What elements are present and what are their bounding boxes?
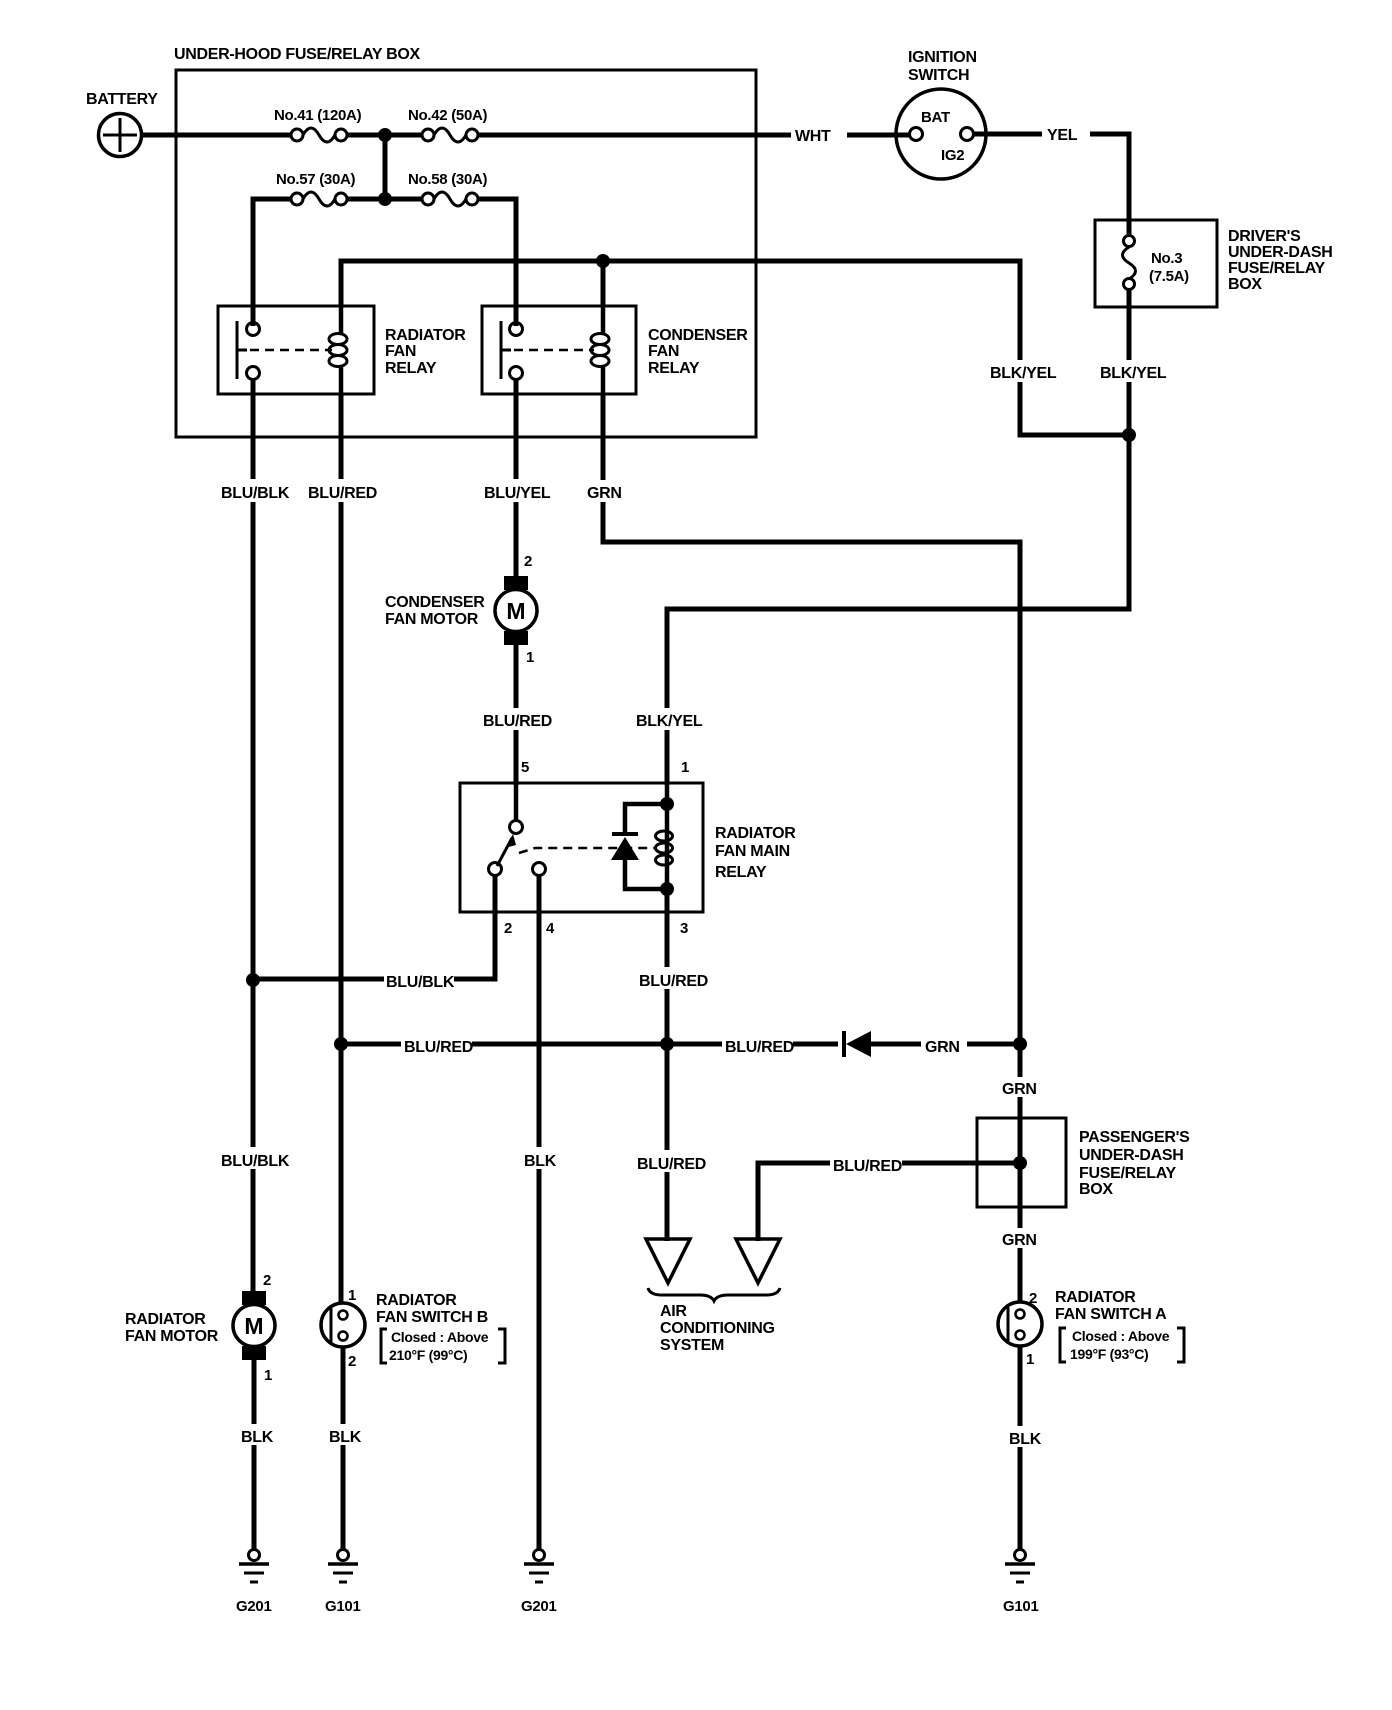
wire switch A BLK to ground	[1018, 1346, 1023, 1550]
svg-text:BAT: BAT	[921, 109, 950, 126]
svg-text:1: 1	[264, 1367, 272, 1384]
svg-text:Closed : Above: Closed : Above	[1072, 1328, 1170, 1344]
label BLU/RED branch	[830, 1152, 902, 1175]
svg-text:BLK: BLK	[1009, 1431, 1042, 1448]
label GRN bus	[921, 1034, 967, 1056]
svg-text:BLU/RED: BLU/RED	[637, 1156, 706, 1173]
wire condenser coil drop	[601, 261, 606, 306]
fuse No.58	[408, 171, 488, 206]
fuse No.41	[274, 107, 362, 142]
wire fuse57 to fuse58	[347, 197, 423, 202]
svg-text:BLK/YEL: BLK/YEL	[990, 365, 1057, 382]
svg-text:FAN SWITCH A: FAN SWITCH A	[1055, 1306, 1167, 1323]
svg-text:BLK/YEL: BLK/YEL	[1100, 365, 1167, 382]
svg-text:BLU/RED: BLU/RED	[483, 713, 552, 730]
svg-text:IG2: IG2	[941, 147, 964, 164]
svg-text:SYSTEM: SYSTEM	[660, 1337, 724, 1354]
svg-text:BLU/RED: BLU/RED	[833, 1158, 902, 1175]
svg-text:BLU/RED: BLU/RED	[308, 485, 377, 502]
fuse No.3	[1123, 236, 1190, 290]
label BLU/BLK lower	[219, 1147, 290, 1170]
label RADIATOR FAN RELAY	[385, 327, 466, 377]
svg-text:No.3: No.3	[1151, 250, 1182, 267]
svg-text:M: M	[244, 1313, 263, 1339]
node BLU/BLK junction	[246, 973, 260, 987]
node A row1 junction	[378, 128, 392, 142]
svg-text:3: 3	[680, 920, 688, 937]
main relay coil	[656, 783, 673, 889]
svg-text:FUSE/RELAY: FUSE/RELAY	[1228, 260, 1326, 277]
svg-text:FAN: FAN	[648, 343, 679, 360]
svg-text:BLU/RED: BLU/RED	[725, 1039, 794, 1056]
wire row2 left segment to fuse57	[253, 199, 292, 326]
svg-text:CONDENSER: CONDENSER	[385, 594, 485, 611]
svg-text:WHT: WHT	[795, 128, 831, 145]
svg-text:DRIVER'S: DRIVER'S	[1228, 228, 1301, 245]
svg-text:BLU/BLK: BLU/BLK	[221, 1153, 290, 1170]
svg-text:BLK: BLK	[241, 1429, 274, 1446]
label BLU/RED bus mid	[722, 1033, 794, 1056]
svg-text:FAN SWITCH B: FAN SWITCH B	[376, 1309, 488, 1326]
radiator fan switch A	[998, 1302, 1042, 1346]
ground G201 motor	[236, 1550, 272, 1616]
wire node A down to node B	[383, 135, 388, 199]
label GRN above passenger box	[999, 1077, 1044, 1098]
wire BLU/RED branch to passenger box	[758, 1163, 1020, 1241]
svg-text:2: 2	[524, 553, 532, 570]
node bus left	[334, 1037, 348, 1051]
label BLK motor	[238, 1424, 274, 1446]
svg-text:No.42 (50A): No.42 (50A)	[408, 107, 488, 124]
wire IG2 YEL to driver box	[974, 134, 1129, 237]
A/C arrow 2	[736, 1239, 780, 1283]
svg-text:CONDENSER: CONDENSER	[648, 327, 748, 344]
pin 5 label	[521, 759, 529, 776]
wire pin2 to BLU/BLK junction	[253, 876, 495, 979]
svg-text:G201: G201	[236, 1598, 272, 1615]
wire coil bus y261	[341, 261, 1129, 435]
battery	[99, 114, 142, 157]
label UNDER-HOOD FUSE/RELAY BOX	[174, 46, 420, 63]
svg-text:4: 4	[546, 920, 555, 937]
svg-text:RADIATOR: RADIATOR	[376, 1292, 457, 1309]
label BLU/RED above arrow1	[634, 1150, 706, 1173]
svg-text:UNDER-HOOD FUSE/RELAY BOX: UNDER-HOOD FUSE/RELAY BOX	[174, 46, 420, 63]
pin 2 condenser motor	[524, 553, 532, 570]
svg-text:BLU/RED: BLU/RED	[639, 973, 708, 990]
pin 4 label	[546, 920, 555, 937]
wire fuse41 to fuse42	[347, 133, 423, 138]
svg-text:RADIATOR: RADIATOR	[385, 327, 466, 344]
under-hood fuse/relay box	[176, 70, 756, 437]
pin 1 switch A	[1026, 1351, 1034, 1368]
wire GRN condenser coil to passenger box	[603, 394, 1020, 1302]
svg-text:2: 2	[504, 920, 512, 937]
svg-text:199°F (93°C): 199°F (93°C)	[1070, 1346, 1148, 1362]
svg-text:1: 1	[526, 649, 534, 666]
label CONDENSER FAN RELAY	[648, 327, 748, 377]
svg-text:G101: G101	[325, 1598, 361, 1615]
wire BLU/RED bus y1044	[341, 1042, 1020, 1047]
svg-text:RELAY: RELAY	[648, 360, 700, 377]
svg-text:FAN: FAN	[385, 343, 416, 360]
label BATTERY	[86, 91, 158, 108]
label BLK/YEL right	[1097, 360, 1167, 382]
radiator fan switch B	[321, 1303, 365, 1347]
svg-text:G201: G201	[521, 1598, 557, 1615]
svg-text:UNDER-DASH: UNDER-DASH	[1228, 244, 1333, 261]
svg-text:No.58 (30A): No.58 (30A)	[408, 171, 488, 188]
label BLU/BLK mid	[384, 968, 455, 991]
svg-text:2: 2	[348, 1353, 356, 1370]
condenser fan relay	[482, 306, 636, 394]
svg-text:1: 1	[681, 759, 689, 776]
label BLK switch A	[1006, 1426, 1042, 1448]
svg-text:FUSE/RELAY: FUSE/RELAY	[1079, 1165, 1177, 1182]
ground G101 switch B	[325, 1550, 361, 1616]
label WHT	[791, 124, 847, 145]
pin 3 label	[680, 920, 688, 937]
wire switch B BLK to ground	[341, 1347, 346, 1550]
node bus right	[1013, 1037, 1027, 1051]
pin 2 radiator motor	[263, 1272, 271, 1289]
pin 1 switch B	[348, 1287, 356, 1304]
label GRN below passenger box	[999, 1228, 1044, 1249]
svg-text:GRN: GRN	[925, 1039, 960, 1056]
svg-text:(7.5A): (7.5A)	[1149, 268, 1189, 285]
svg-text:RADIATOR: RADIATOR	[715, 825, 796, 842]
passenger's under-dash fuse/relay box	[977, 1118, 1066, 1207]
svg-text:RELAY: RELAY	[385, 360, 437, 377]
pin 2 switch A	[1029, 1290, 1037, 1307]
radiator fan main relay	[460, 783, 703, 912]
wire radiator motor BLK to ground	[252, 1360, 257, 1550]
label BLU/RED bus left	[401, 1033, 473, 1056]
driver's under-dash fuse/relay box	[1095, 220, 1217, 307]
brace air conditioning	[648, 1288, 780, 1301]
label PASSENGER'S UNDER-DASH FUSE/RELAY BOX	[1079, 1129, 1190, 1198]
radiator fan relay	[218, 306, 374, 394]
pin 1 label main relay	[681, 759, 689, 776]
svg-text:2: 2	[263, 1272, 271, 1289]
label YEL	[1042, 123, 1090, 144]
svg-text:BLU/RED: BLU/RED	[404, 1039, 473, 1056]
svg-text:Closed : Above: Closed : Above	[391, 1329, 489, 1345]
svg-text:PASSENGER'S: PASSENGER'S	[1079, 1129, 1190, 1146]
pin 2 label	[504, 920, 512, 937]
wire BLU/BLK radiator relay to motor	[251, 379, 256, 1292]
wire fuse58 down to condenser fan relay	[478, 199, 516, 326]
wire fuse42 to ignition switch WHT	[478, 133, 911, 138]
fuse No.57	[276, 171, 356, 206]
node passenger box junction	[1013, 1156, 1027, 1170]
radiator fan motor	[233, 1291, 275, 1360]
svg-text:BLU/YEL: BLU/YEL	[484, 485, 551, 502]
label RADIATOR FAN SWITCH B	[376, 1292, 505, 1363]
node C BLK/YEL junction	[1122, 428, 1136, 442]
node coil bus junction	[596, 254, 610, 268]
pin 2 switch B	[348, 1353, 356, 1370]
svg-text:210°F (99°C): 210°F (99°C)	[389, 1347, 467, 1363]
label BLU/RED pin5	[481, 708, 552, 730]
svg-text:RADIATOR: RADIATOR	[125, 1311, 206, 1328]
fuse No.42	[408, 107, 488, 142]
label GRN top	[584, 480, 628, 502]
svg-text:1: 1	[348, 1287, 356, 1304]
label BLK/YEL left	[988, 360, 1057, 382]
svg-text:CONDITIONING: CONDITIONING	[660, 1320, 775, 1337]
label RADIATOR FAN MAIN RELAY	[715, 825, 796, 881]
node coil bottom	[660, 882, 674, 896]
node bus mid	[660, 1037, 674, 1051]
svg-text:No.41 (120A): No.41 (120A)	[274, 107, 362, 124]
svg-text:BATTERY: BATTERY	[86, 91, 158, 108]
wire BLU/YEL condenser relay to motor	[514, 379, 519, 578]
svg-text:AIR: AIR	[660, 1303, 687, 1320]
label DRIVER'S UNDER-DASH FUSE/RELAY BOX	[1228, 228, 1333, 293]
svg-text:5: 5	[521, 759, 529, 776]
node coil top	[660, 797, 674, 811]
wire driver box down BLK/YEL to node C	[1127, 290, 1132, 437]
svg-text:RELAY: RELAY	[715, 864, 767, 881]
label RADIATOR FAN SWITCH A	[1055, 1289, 1184, 1362]
label BLU/RED top	[306, 479, 377, 502]
label BLU/YEL	[482, 479, 551, 502]
ground G201 pin4	[521, 1550, 557, 1616]
wire condenser motor to main relay pin5	[514, 645, 519, 785]
svg-text:RADIATOR: RADIATOR	[1055, 1289, 1136, 1306]
pin 1 condenser motor	[526, 649, 534, 666]
svg-text:M: M	[506, 598, 525, 624]
main relay switch	[489, 783, 655, 876]
svg-text:FAN MOTOR: FAN MOTOR	[385, 611, 479, 628]
ignition switch	[896, 89, 986, 179]
svg-text:BLK: BLK	[329, 1429, 362, 1446]
svg-text:GRN: GRN	[1002, 1081, 1037, 1098]
label BLU/BLK top	[219, 479, 290, 502]
svg-text:BLK: BLK	[524, 1153, 557, 1170]
svg-text:G101: G101	[1003, 1598, 1039, 1615]
svg-text:No.57 (30A): No.57 (30A)	[276, 171, 356, 188]
svg-text:IGNITION: IGNITION	[908, 49, 977, 66]
ground G101 switch A	[1003, 1550, 1039, 1616]
svg-text:SWITCH: SWITCH	[908, 67, 969, 84]
wire node C to radiator fan main relay pin1	[667, 435, 1129, 785]
node B row2 junction	[378, 192, 392, 206]
svg-text:BLU/BLK: BLU/BLK	[386, 974, 455, 991]
svg-text:FAN MOTOR: FAN MOTOR	[125, 1328, 219, 1345]
diode D1 bus arrow	[838, 1030, 871, 1058]
diode D2 main relay	[611, 804, 667, 889]
label IGNITION SWITCH	[908, 49, 977, 84]
wire battery to fuse No.41	[141, 133, 292, 138]
condenser fan motor	[495, 576, 537, 645]
wire BLU/RED radiator coil to switch B	[339, 394, 344, 1304]
label BLU/RED pin3	[637, 967, 708, 990]
A/C arrow 1	[646, 1239, 690, 1283]
label RADIATOR FAN MOTOR	[125, 1311, 219, 1345]
svg-text:BOX: BOX	[1079, 1181, 1113, 1198]
svg-text:YEL: YEL	[1047, 127, 1078, 144]
svg-text:1: 1	[1026, 1351, 1034, 1368]
label BLK switch B	[326, 1424, 362, 1446]
pin 1 radiator motor	[264, 1367, 272, 1384]
label BLK/YEL pin1	[634, 708, 703, 730]
wire pin4 BLK to ground	[537, 876, 542, 1550]
svg-text:FAN MAIN: FAN MAIN	[715, 843, 790, 860]
svg-text:BOX: BOX	[1228, 276, 1262, 293]
label CONDENSER FAN MOTOR	[385, 594, 485, 628]
svg-text:GRN: GRN	[587, 485, 622, 502]
wire pin3 BLU/RED down	[665, 889, 670, 1241]
svg-text:BLU/BLK: BLU/BLK	[221, 485, 290, 502]
svg-text:UNDER-DASH: UNDER-DASH	[1079, 1147, 1184, 1164]
svg-text:GRN: GRN	[1002, 1232, 1037, 1249]
label AIR CONDITIONING SYSTEM	[660, 1303, 775, 1354]
svg-text:BLK/YEL: BLK/YEL	[636, 713, 703, 730]
label BLK pin4 wire	[520, 1147, 558, 1170]
